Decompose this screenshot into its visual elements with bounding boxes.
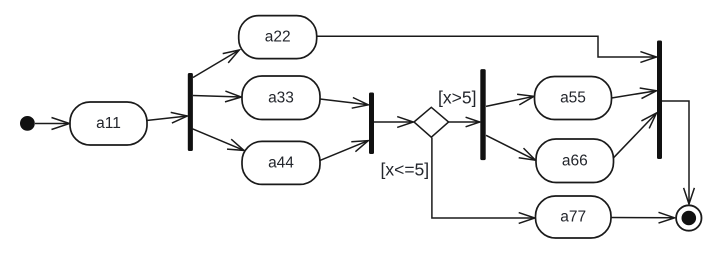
wire a66 to join4 bbox=[614, 113, 657, 158]
svg-text:a55: a55 bbox=[560, 90, 586, 107]
join bar 2 bbox=[369, 93, 374, 155]
action a44 bbox=[242, 141, 320, 184]
wire decision to fork3 bbox=[449, 117, 480, 127]
action a66 bbox=[536, 139, 614, 183]
decision diamond bbox=[414, 107, 449, 137]
wire a55 to join4 bbox=[612, 88, 657, 99]
wire fork3 to a66 bbox=[486, 135, 536, 160]
svg-text:a22: a22 bbox=[265, 29, 291, 46]
wire a11 to fork1 bbox=[147, 112, 188, 123]
initial node bbox=[20, 116, 35, 131]
join bar 4 bbox=[657, 41, 662, 160]
wire decision to a77 bbox=[432, 138, 535, 224]
action a77 bbox=[536, 196, 612, 238]
svg-text:[x<=5]: [x<=5] bbox=[381, 160, 430, 180]
svg-text:a11: a11 bbox=[96, 115, 121, 132]
action a22 bbox=[239, 16, 317, 59]
wire fork1 to a33 bbox=[193, 91, 241, 102]
wire a33 to join2 bbox=[320, 98, 368, 109]
fork bar 1 bbox=[188, 73, 193, 151]
wire fork3 to a55 bbox=[486, 94, 534, 106]
action a11 bbox=[70, 102, 147, 145]
wire fork1 to a44 bbox=[193, 129, 245, 151]
wire join4 to final bbox=[662, 101, 694, 204]
action a55 bbox=[535, 77, 612, 120]
wire a44 to join2 bbox=[320, 141, 369, 161]
svg-text:a77: a77 bbox=[560, 209, 586, 226]
wire join2 to decision bbox=[374, 117, 413, 128]
fork bar 3 bbox=[480, 69, 485, 160]
final node bbox=[676, 205, 701, 230]
wire a77 to final bbox=[611, 212, 675, 223]
svg-text:[x>5]: [x>5] bbox=[438, 87, 476, 107]
wire fork1 to a22 bbox=[193, 50, 239, 78]
svg-text:a44: a44 bbox=[268, 154, 294, 171]
wire a22 to join4 bbox=[317, 36, 657, 62]
svg-text:a66: a66 bbox=[562, 152, 588, 169]
svg-text:a33: a33 bbox=[268, 89, 294, 106]
wire initial to a11 bbox=[35, 118, 70, 130]
action a33 bbox=[242, 76, 320, 120]
